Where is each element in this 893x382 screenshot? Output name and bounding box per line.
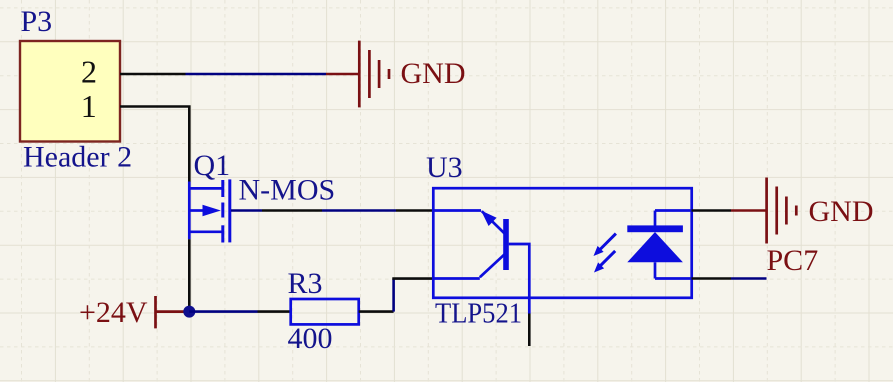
transistor U3 output emitter lead	[433, 209, 481, 212]
transistor U3 base lead	[509, 244, 530, 314]
pin R3.2	[359, 310, 394, 313]
wire pin2 to GND	[186, 73, 327, 76]
wire PC7 stub	[731, 277, 767, 280]
svg-text:R3: R3	[288, 267, 323, 300]
light arrow 1	[594, 234, 616, 256]
diode LED triangle	[627, 232, 683, 262]
ground GND (right) lead	[731, 209, 766, 212]
svg-text:P3: P3	[21, 5, 53, 38]
svg-text:TLP521: TLP521	[435, 298, 522, 330]
transistor Q1 (N-MOS)	[189, 179, 230, 242]
wire node to R3	[189, 310, 257, 313]
svg-text:Header 2: Header 2	[23, 141, 132, 174]
pin P3.2	[120, 73, 186, 76]
opto-coupler U3 box	[433, 188, 691, 298]
wire gate segment blue 2	[322, 209, 396, 212]
pin P3.1 and wire down to Q1 drain	[120, 107, 189, 183]
svg-text:Q1: Q1	[194, 149, 231, 182]
wire Q1 source down to +24V node	[188, 239, 191, 307]
ground GND (top) bars	[359, 41, 389, 108]
wire U3 base dangling	[528, 314, 531, 347]
svg-text:U3: U3	[426, 151, 463, 184]
svg-text:2: 2	[81, 54, 97, 90]
pin U3 right-bottom	[692, 277, 732, 280]
svg-text:1: 1	[81, 88, 97, 124]
transistor U3 emitter arrow	[481, 211, 497, 227]
pin U3 left-top	[396, 209, 433, 212]
diode LED vertical top	[654, 211, 657, 227]
junction node +24V	[183, 306, 195, 318]
diode LED top bracket	[655, 209, 692, 212]
light arrow 2	[594, 251, 615, 273]
pin U3 right-top	[692, 209, 732, 212]
svg-text:400: 400	[288, 322, 333, 355]
svg-text:N-MOS: N-MOS	[239, 174, 336, 207]
diode LED bottom bracket	[655, 277, 692, 280]
svg-text:+24V: +24V	[79, 296, 148, 329]
connector P3 body	[20, 41, 120, 142]
svg-text:GND: GND	[401, 57, 466, 90]
transistor U3 collector diagonal	[480, 254, 505, 277]
wire gate segment black	[262, 209, 322, 212]
diode LED cathode bar	[627, 225, 683, 232]
wire Q1 gate segment blue	[231, 209, 262, 212]
ground GND (top) lead	[326, 73, 358, 76]
svg-text:GND: GND	[809, 195, 874, 228]
transistor U3 emitter diagonal	[482, 211, 505, 233]
transistor U3 collector lead	[433, 277, 480, 280]
transistor Q1 body arrow	[203, 205, 221, 216]
power port +24V bar	[156, 296, 185, 328]
ground GND (right) bars	[767, 178, 797, 244]
pin R3.1	[258, 310, 291, 313]
resistor R3 body	[291, 299, 359, 324]
diode LED vertical bottom	[654, 262, 657, 278]
wire R3 up elbow	[392, 279, 395, 312]
transistor U3 base bar	[503, 219, 509, 270]
wire elbow to U3	[392, 277, 433, 280]
svg-text:PC7: PC7	[767, 244, 819, 277]
